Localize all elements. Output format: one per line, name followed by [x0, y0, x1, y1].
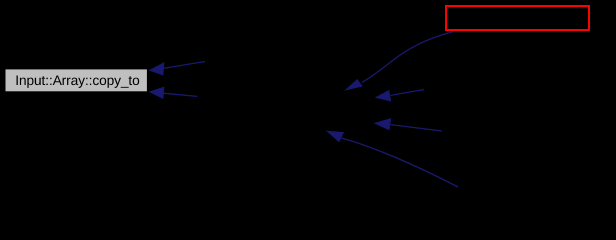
node truncated (red border, black interior) — [446, 6, 589, 30]
edge 2: middle node -> copy_to (lower) — [150, 87, 197, 98]
edge 3: red node -> middle node (curved) — [346, 32, 453, 90]
edge 1: middle node -> copy_to (upper) — [150, 62, 205, 75]
node Input::Array::copy_to (current node, grey fill) — [6, 69, 147, 91]
edge 6: hidden node -> middle node (long, from bottom right) — [327, 131, 458, 187]
edge 5: hidden node -> middle node (short, lower right) — [375, 119, 442, 131]
edge 4: hidden node -> middle node (short, upper right) — [376, 90, 424, 102]
